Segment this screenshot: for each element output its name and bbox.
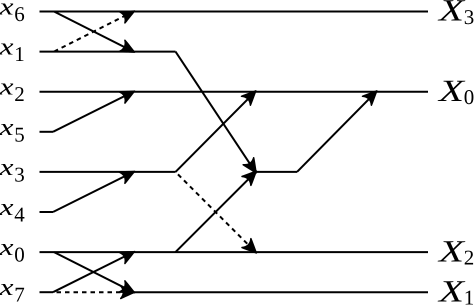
svg-text:6: 6 [14, 2, 24, 26]
wire diagonal x1 down to node J [176, 52, 255, 171]
svg-text:0: 0 [14, 243, 24, 267]
svg-text:2: 2 [464, 245, 474, 269]
svg-text:x: x [0, 155, 14, 181]
wire node J horizontal segment [256, 171, 298, 173]
svg-text:1: 1 [464, 286, 474, 306]
wire x1 row horizontal [40, 51, 176, 53]
wire diagonal node J bend up to X0 row [297, 93, 375, 172]
svg-text:3: 3 [14, 162, 24, 186]
svg-text:5: 5 [14, 122, 24, 146]
svg-text:x: x [0, 115, 14, 141]
wire diagonal x5 to x2 [53, 92, 132, 131]
wire x2 row horizontal [40, 91, 429, 93]
arrowhead on x7 row from dashed horizontal [121, 286, 135, 299]
svg-text:X: X [436, 233, 465, 268]
arrowhead on x0 row from x7 diagonal [119, 246, 137, 264]
svg-text:1: 1 [14, 42, 24, 66]
wire diagonal x4 to x3 [53, 173, 132, 212]
wire diagonal x3 fork up to x2 row [176, 93, 255, 172]
wire x6 row horizontal [40, 11, 429, 13]
svg-text:X: X [436, 73, 465, 108]
svg-text:2: 2 [14, 82, 24, 106]
arrowhead on x2 row from x5 diagonal [119, 86, 137, 104]
arrowhead node J from x0 diagonal [242, 167, 261, 186]
arrowhead on x6 row from dashed [119, 5, 137, 23]
arrowhead on x3 row from x4 diagonal [119, 166, 137, 184]
svg-text:x: x [0, 275, 14, 301]
wire diagonal x0 up to node J [176, 173, 255, 252]
wire dashed diagonal x3 fork down to x0 row [176, 172, 255, 251]
wire diagonal x7 to x0 [53, 253, 132, 292]
svg-text:x: x [0, 235, 14, 261]
arrowhead on x1 row from x6 diagonal [119, 40, 137, 58]
svg-text:3: 3 [464, 5, 474, 29]
svg-text:x: x [0, 35, 14, 61]
arrowhead node J from x1 diagonal [243, 158, 261, 177]
wire x0 row horizontal [40, 251, 429, 253]
arrowhead on x7 row from x0 diagonal [119, 281, 137, 299]
arrowhead on x0 row from dashed fork diagonal [242, 239, 261, 258]
arrowhead on x2 row from x3 fork diagonal [241, 86, 260, 105]
svg-text:X: X [436, 0, 465, 28]
wire diagonal x0 to x7 [54, 252, 132, 291]
svg-text:x: x [0, 195, 14, 221]
wire x4 stub [40, 211, 54, 213]
wire x7 row right horizontal [134, 291, 429, 293]
wire dashed x7 horizontal [53, 291, 131, 293]
svg-text:4: 4 [14, 203, 25, 227]
wire x7 stub [40, 291, 54, 293]
svg-text:x: x [0, 75, 14, 101]
svg-text:x: x [0, 0, 14, 21]
arrowhead on X0 row from bend diagonal [362, 86, 381, 105]
svg-text:7: 7 [14, 283, 24, 306]
wire x5 stub [40, 131, 54, 133]
svg-text:0: 0 [464, 85, 474, 109]
wire diagonal x6 to x1 [54, 12, 132, 51]
wire x3 row horizontal [40, 171, 176, 173]
wire dashed diagonal x1 to x6 [54, 12, 132, 51]
svg-text:X: X [436, 273, 465, 306]
